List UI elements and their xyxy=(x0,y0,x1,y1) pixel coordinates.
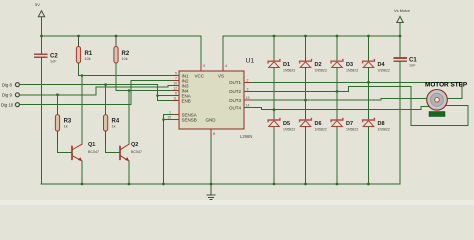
junction Vs-D3 xyxy=(336,35,339,38)
junction IN4-Q2 collector xyxy=(128,89,131,92)
svg-text:Vs Motor: Vs Motor xyxy=(394,8,411,13)
svg-text:10k: 10k xyxy=(122,57,128,61)
svg-text:D3: D3 xyxy=(346,62,353,68)
wire Dig9 line xyxy=(19,94,96,96)
wire Dig8 drop to ENB xyxy=(157,85,159,101)
junction Vs-D1 xyxy=(273,35,276,38)
junction ground-D5 xyxy=(273,183,276,186)
svg-text:2: 2 xyxy=(247,78,249,82)
svg-text:9: 9 xyxy=(203,64,205,68)
svg-text:OUT3: OUT3 xyxy=(229,98,241,103)
svg-text:6: 6 xyxy=(175,92,177,96)
svg-text:D8: D8 xyxy=(378,121,385,127)
svg-text:5: 5 xyxy=(175,72,177,76)
wire Q2 collector riser xyxy=(128,91,130,144)
junction ground-Q1 xyxy=(81,183,84,186)
svg-text:14: 14 xyxy=(246,104,250,108)
svg-text:1N5822: 1N5822 xyxy=(346,128,358,132)
svg-text:VS: VS xyxy=(218,73,224,78)
svg-text:1N5822: 1N5822 xyxy=(283,69,295,73)
wire Vs rail xyxy=(223,35,400,37)
wire SENSA/SENSB to ground xyxy=(164,115,174,185)
pin numbers U1 left xyxy=(167,72,177,120)
ground rail xyxy=(41,183,400,185)
svg-text:8: 8 xyxy=(213,132,215,136)
junction SENSB xyxy=(162,118,165,121)
svg-text:D1: D1 xyxy=(283,62,290,68)
junction Dig9-R3 xyxy=(56,93,59,96)
wire C2 to ground rail xyxy=(41,58,43,184)
resistor R2 10k xyxy=(114,36,130,91)
wire C1 to ground rail xyxy=(399,62,401,184)
svg-text:1k: 1k xyxy=(112,125,116,129)
svg-text:12: 12 xyxy=(173,87,177,91)
wire VCC to 5V rail xyxy=(200,36,202,64)
svg-text:10: 10 xyxy=(173,82,177,86)
pin VCC 9 xyxy=(201,64,205,72)
junction IN1-Q1 collector xyxy=(81,74,84,77)
junction OUT4-D1 column xyxy=(273,108,276,111)
diode D8 1N5822 xyxy=(363,118,390,184)
svg-text:BC547: BC547 xyxy=(131,150,142,154)
svg-text:1N5822: 1N5822 xyxy=(378,128,390,132)
junction ground-GND xyxy=(210,183,213,186)
svg-text:5V: 5V xyxy=(35,2,40,7)
wire IN4 net xyxy=(116,90,173,92)
junction 5V-R2 xyxy=(115,35,118,38)
wire ENB stub net xyxy=(158,100,174,102)
svg-text:ENB: ENB xyxy=(182,98,191,103)
diode D7 1N5822 xyxy=(331,118,358,184)
junction 5V-R1 xyxy=(77,35,80,38)
svg-text:L298N: L298N xyxy=(240,134,252,139)
junction ground-D7 xyxy=(336,183,339,186)
wire 5V rail xyxy=(42,35,202,37)
wire GND to ground rail xyxy=(210,136,212,184)
resistor R3 1k xyxy=(55,95,72,143)
wire Dig10 line xyxy=(19,104,131,106)
wire Dig10 to IN2 xyxy=(131,81,173,105)
svg-text:U1: U1 xyxy=(246,58,255,65)
svg-text:MOTOR STEP: MOTOR STEP xyxy=(425,82,468,89)
svg-text:1nF: 1nF xyxy=(409,64,416,68)
svg-text:13: 13 xyxy=(246,96,250,100)
junction 5V-C2 xyxy=(40,35,43,38)
svg-text:1N5822: 1N5822 xyxy=(346,69,358,73)
junction OUT2-D3 column xyxy=(336,90,339,93)
power symbol Vs Motor xyxy=(394,8,411,36)
wire R3 to Q1 base xyxy=(58,143,72,153)
svg-text:D2: D2 xyxy=(315,62,322,68)
pin GND 8 xyxy=(211,129,215,136)
wire VS to Vs rail xyxy=(222,36,224,64)
wire Dig8 line xyxy=(19,84,157,86)
wire ENA stub net xyxy=(158,95,174,97)
svg-text:7: 7 xyxy=(175,77,177,81)
transistor Q1 BC547 xyxy=(72,142,99,161)
diode D5 1N5822 xyxy=(268,118,295,184)
wire R4 to Q2 base xyxy=(106,143,120,153)
junction ground-D8 xyxy=(367,183,370,186)
diode D6 1N5822 xyxy=(300,118,327,184)
pin names U1 xyxy=(182,73,242,122)
terminal Dig 10 xyxy=(1,103,19,108)
svg-text:OUT2: OUT2 xyxy=(229,89,241,94)
pin VS 4 xyxy=(223,64,227,72)
pin stubs U1 left xyxy=(173,76,179,120)
junction ground-D6 xyxy=(304,183,307,186)
capacitor C2 xyxy=(35,36,58,64)
svg-text:1nF: 1nF xyxy=(50,60,57,64)
wire Q1 emitter to ground xyxy=(81,161,83,184)
junction Vs-C1 xyxy=(399,35,402,38)
transistor Q2 BC547 xyxy=(120,142,142,161)
junction ground-Q2 xyxy=(128,183,131,186)
svg-text:D4: D4 xyxy=(378,62,386,68)
wire Q2 emitter to ground xyxy=(128,161,130,184)
junction ENA xyxy=(156,94,159,97)
svg-text:D6: D6 xyxy=(315,121,322,127)
motor MOTOR STEP xyxy=(425,82,468,117)
svg-text:4: 4 xyxy=(225,64,227,68)
svg-text:Dig 9: Dig 9 xyxy=(2,93,12,98)
wire IN1 net xyxy=(79,75,174,77)
svg-text:Q1: Q1 xyxy=(88,142,95,148)
svg-text:D7: D7 xyxy=(346,121,353,127)
svg-text:D5: D5 xyxy=(283,121,290,127)
diode D4 1N5822 xyxy=(363,36,390,120)
diode D2 1N5822 xyxy=(300,36,327,120)
capacitor C1 xyxy=(395,36,418,68)
wire Dig9 to IN3 xyxy=(96,86,173,95)
svg-text:3: 3 xyxy=(247,87,249,91)
resistor R1 10k xyxy=(76,36,92,76)
pin stubs U1 right + numbers xyxy=(244,82,251,107)
svg-text:BC547: BC547 xyxy=(88,150,99,154)
svg-text:Dig 10: Dig 10 xyxy=(1,103,14,108)
svg-text:Q2: Q2 xyxy=(131,142,138,148)
junction OUT3-D2 column xyxy=(304,99,307,102)
svg-text:10k: 10k xyxy=(85,57,91,61)
resistor R4 1k xyxy=(104,85,120,143)
junction Dig8-R4 column xyxy=(104,83,107,86)
svg-text:1N5822: 1N5822 xyxy=(315,69,327,73)
junction Vs-D4 xyxy=(367,35,370,38)
svg-text:OUT4: OUT4 xyxy=(229,105,241,110)
junction Vs-D2 xyxy=(304,35,307,38)
diode D1 1N5822 xyxy=(268,36,295,120)
wire OUT4 net xyxy=(251,107,430,110)
svg-text:SENSB: SENSB xyxy=(182,117,197,122)
svg-text:1N5822: 1N5822 xyxy=(315,128,327,132)
svg-text:1N5822: 1N5822 xyxy=(378,69,390,73)
junction ground-SENS xyxy=(162,183,165,186)
svg-text:VCC: VCC xyxy=(195,73,205,78)
terminal Dig 9 xyxy=(2,93,19,98)
wire Q1 collector riser xyxy=(81,76,83,144)
op-amp U1 L298N body xyxy=(179,58,254,140)
svg-text:GND: GND xyxy=(206,117,217,122)
ground symbol xyxy=(207,184,215,200)
wire OUT2 net xyxy=(251,87,468,126)
terminal Dig 8 xyxy=(2,83,19,88)
svg-text:1N5822: 1N5822 xyxy=(283,128,295,132)
junction OUT1-D4 column xyxy=(367,81,370,84)
svg-text:1k: 1k xyxy=(64,125,68,129)
svg-text:Dig 8: Dig 8 xyxy=(2,83,12,88)
wire OUT1 net xyxy=(251,82,462,98)
diode D3 1N5822 xyxy=(331,36,358,120)
wire OUT3 net xyxy=(251,99,427,101)
svg-text:11: 11 xyxy=(173,97,177,101)
svg-text:OUT1: OUT1 xyxy=(229,80,241,85)
power symbol 5V xyxy=(35,2,45,36)
